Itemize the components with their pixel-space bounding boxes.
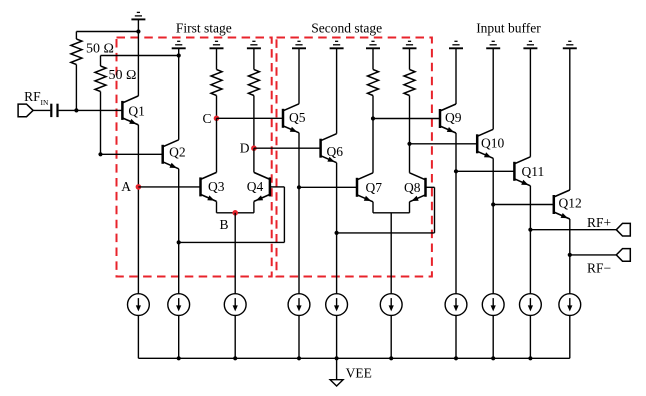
wire Q8 collector node to Q10 base xyxy=(410,143,478,145)
junction Q12 emitter to RF- xyxy=(568,253,572,257)
resistor R3 first stage left xyxy=(211,70,222,96)
svg-text:Q6: Q6 xyxy=(327,144,344,159)
ground G8 xyxy=(403,41,417,48)
resistor R4 first stage right xyxy=(248,70,259,96)
wire R5 bottom / Q7 collector xyxy=(372,96,374,173)
junction Q8 collector to Q10 base xyxy=(407,142,411,146)
ground G6 xyxy=(330,41,344,48)
svg-text:IN: IN xyxy=(41,98,49,107)
wire node A to Q3 base xyxy=(138,186,200,188)
wire Q8 base detour vertical xyxy=(434,187,436,233)
wire ground G8 stem xyxy=(409,48,411,69)
junction Q10 emitter to Q12 base xyxy=(491,202,495,206)
wire R4 bottom to node D xyxy=(253,96,255,149)
wire current source I4 to rail xyxy=(298,315,300,358)
node D red dot xyxy=(251,145,257,151)
wire emitter bus stage1 xyxy=(217,212,254,214)
wire stage2 tail down xyxy=(390,213,392,294)
wire RF+ output xyxy=(530,229,616,231)
dashed box First stage xyxy=(117,38,272,277)
wire VEE stem xyxy=(336,358,338,379)
current source I8 xyxy=(482,294,504,316)
ground G7 xyxy=(366,41,380,48)
ground G10 xyxy=(486,41,500,48)
current source I6 xyxy=(380,294,402,316)
transistor Q12 xyxy=(554,190,570,219)
wire ground G5 stem / Q5 collector xyxy=(298,48,300,104)
node B red dot xyxy=(232,210,238,216)
wire ground G11 stem / Q11 collector xyxy=(529,48,531,157)
junction at rail2 and Q2 collector xyxy=(177,53,181,57)
current source I4 xyxy=(288,294,310,316)
wire current source I6 to rail xyxy=(390,315,392,358)
current source I9 xyxy=(520,294,542,316)
ground G4 xyxy=(247,41,261,48)
wire Q2 collector xyxy=(178,56,180,140)
transistor Q8 xyxy=(410,173,426,202)
junction rail at I3 xyxy=(233,356,237,360)
port RF_IN xyxy=(18,104,33,117)
wire Q7 emitter to bus xyxy=(372,202,374,213)
junction at rail1 and Q1 collector xyxy=(136,29,140,33)
wire Q9 emitter down xyxy=(455,133,457,294)
transistor Q10 xyxy=(477,129,493,158)
ground G1 top-left xyxy=(131,12,145,19)
svg-text:Second stage: Second stage xyxy=(311,21,382,36)
wire current source I8 to rail xyxy=(492,315,494,358)
junction node RF input with R1 xyxy=(74,108,78,112)
wire bottom rail VEE xyxy=(138,357,569,359)
transistor Q4 xyxy=(254,172,270,201)
wire R3 bottom to node C xyxy=(216,96,218,119)
wire current source I1 to rail xyxy=(137,315,139,358)
ground G9 xyxy=(449,41,463,48)
wire ground G7 stem xyxy=(372,48,374,69)
svg-text:Q11: Q11 xyxy=(522,164,545,179)
svg-text:VEE: VEE xyxy=(346,366,372,381)
transistor Q3 xyxy=(201,172,217,201)
wire Q6 emitter down xyxy=(336,163,338,294)
wire current source I5 to rail xyxy=(336,315,338,358)
wire current source I3 to rail xyxy=(234,315,236,358)
node A red dot xyxy=(136,184,142,190)
wire Q8 base detour horizontal xyxy=(337,232,435,234)
ground G12 xyxy=(563,41,577,48)
wire Q5 emitter down xyxy=(298,133,300,294)
current source I5 xyxy=(326,294,348,316)
wire Q2 emitter down xyxy=(178,169,180,294)
wire Q4 base stub xyxy=(270,186,285,188)
junction Q5 emitter to Q7 base xyxy=(297,185,301,189)
wire current source I9 to rail xyxy=(529,315,531,358)
VEE supply symbol xyxy=(330,380,343,386)
wire current source I2 to rail xyxy=(178,315,180,358)
junction rail at I5 xyxy=(335,356,339,360)
svg-text:Q8: Q8 xyxy=(404,180,421,195)
svg-text:Q7: Q7 xyxy=(366,180,383,195)
svg-text:50 Ω: 50 Ω xyxy=(86,41,114,56)
transistor Q9 xyxy=(440,104,456,133)
wire ground G9 stem / Q9 collector xyxy=(455,48,457,104)
resistor R2 50 ohm xyxy=(95,66,106,92)
wire RF- output xyxy=(570,254,617,256)
junction rail at I7 xyxy=(454,356,458,360)
wire top rail 1 xyxy=(76,31,138,33)
svg-text:D: D xyxy=(240,141,250,156)
wire Q8 base stub xyxy=(426,186,435,188)
dashed box Second stage xyxy=(277,38,432,277)
current source I2 xyxy=(168,294,190,316)
svg-text:Input buffer: Input buffer xyxy=(476,21,541,36)
capacitor C1 xyxy=(50,104,52,117)
wire node B down xyxy=(234,213,236,294)
svg-text:C: C xyxy=(202,111,211,126)
wire Q2 base xyxy=(101,153,163,155)
wire ground G10 stem / Q10 collector xyxy=(492,48,494,129)
transistor Q11 xyxy=(514,157,530,186)
transistor Q2 xyxy=(163,140,179,169)
wire Q3 collector up to C xyxy=(216,118,218,172)
wire Q10 emitter to Q12 base xyxy=(493,204,554,206)
wire ground G3 stem xyxy=(216,48,218,69)
svg-text:Q9: Q9 xyxy=(445,110,462,125)
port RF+ xyxy=(616,223,630,236)
svg-text:Q1: Q1 xyxy=(128,104,145,119)
resistor R5 second stage left xyxy=(368,70,379,96)
wire emitter bus stage2 xyxy=(373,212,410,214)
transistor Q7 xyxy=(357,173,373,202)
wire Q4 collector up to D xyxy=(253,148,255,172)
wire current source I10 to rail xyxy=(569,315,571,358)
wire node C to Q5 base xyxy=(217,117,284,119)
transistor Q5 xyxy=(283,104,299,133)
svg-text:First stage: First stage xyxy=(176,21,232,36)
wire ground G4 stem xyxy=(253,48,255,69)
transistor Q1 xyxy=(122,96,138,125)
svg-text:RF: RF xyxy=(24,89,41,104)
wire ground G1 stem xyxy=(137,19,139,31)
junction rail at I2 xyxy=(177,356,181,360)
wire Q8 emitter to bus xyxy=(409,202,411,213)
svg-text:Q4: Q4 xyxy=(247,179,264,194)
junction R2 to Q2 base xyxy=(98,152,102,156)
transistor Q6 xyxy=(321,134,337,163)
port RF- xyxy=(616,249,630,262)
svg-text:Q3: Q3 xyxy=(208,179,225,194)
node C red dot xyxy=(214,116,220,122)
current source I10 xyxy=(559,294,581,316)
svg-text:B: B xyxy=(220,217,229,232)
wire Q12 emitter down xyxy=(569,219,571,294)
wire R6 bottom / Q8 collector xyxy=(409,96,411,173)
junction Q6 emitter with Q8 base detour xyxy=(335,231,339,235)
wire Q5 emitter to Q7 base xyxy=(299,186,357,188)
junction Q7 collector to Q9 base xyxy=(371,116,375,120)
svg-text:Q12: Q12 xyxy=(559,196,582,211)
wire Q10 emitter down xyxy=(492,158,494,294)
current source I3 xyxy=(224,294,246,316)
resistor R6 second stage right xyxy=(404,70,415,96)
junction rail at I6 xyxy=(389,356,393,360)
wire Q4 base detour vertical xyxy=(283,187,285,243)
wire Q1 emitter down xyxy=(137,125,139,294)
junction rail at I9 xyxy=(528,356,532,360)
junction Q2 emitter with Q4 base detour xyxy=(177,240,181,244)
svg-text:Q2: Q2 xyxy=(169,145,186,160)
wire ground G12 stem / Q12 collector xyxy=(569,48,571,190)
wire Q4 base detour horizontal xyxy=(179,241,285,243)
resistor R1 50 ohm xyxy=(71,39,82,65)
current source I7 xyxy=(445,294,467,316)
svg-text:50 Ω: 50 Ω xyxy=(109,68,137,83)
svg-text:RF+: RF+ xyxy=(587,215,611,230)
ground G3 xyxy=(210,41,224,48)
svg-text:Q5: Q5 xyxy=(289,110,306,125)
svg-text:RF−: RF− xyxy=(587,261,611,276)
wire ground G2 stem xyxy=(178,48,180,55)
wire RF_IN to capacitor xyxy=(33,109,50,111)
wire R2 bottom lead xyxy=(100,92,102,155)
wire Q11 emitter down xyxy=(529,186,531,294)
wire top rail 2 xyxy=(101,55,179,57)
junction rail at I4 xyxy=(297,356,301,360)
ground G5 xyxy=(292,41,306,48)
wire Q4 emitter to bus xyxy=(253,201,255,212)
wire capacitor to Q1 base xyxy=(59,109,123,111)
wire node D to Q6 base xyxy=(254,147,321,149)
ground G11 xyxy=(523,41,537,48)
wire Q9 emitter to Q11 base xyxy=(456,170,514,172)
wire ground G6 stem / Q6 collector xyxy=(336,48,338,133)
junction Q9 emitter to Q11 base xyxy=(454,169,458,173)
svg-text:A: A xyxy=(121,179,131,194)
svg-text:Q10: Q10 xyxy=(481,136,504,151)
junction rail at I8 xyxy=(491,356,495,360)
wire current source I7 to rail xyxy=(455,315,457,358)
wire R1 bottom lead xyxy=(75,65,77,111)
wire Q7 collector node to Q9 base xyxy=(373,118,440,120)
wire R1 top lead xyxy=(75,32,77,40)
wire R2 top lead xyxy=(100,56,102,67)
wire Q1 collector xyxy=(137,32,139,96)
junction Q11 emitter to RF+ xyxy=(528,228,532,232)
current source I1 xyxy=(127,294,149,316)
wire Q3 emitter to bus xyxy=(216,201,218,212)
ground G2 xyxy=(172,41,186,48)
